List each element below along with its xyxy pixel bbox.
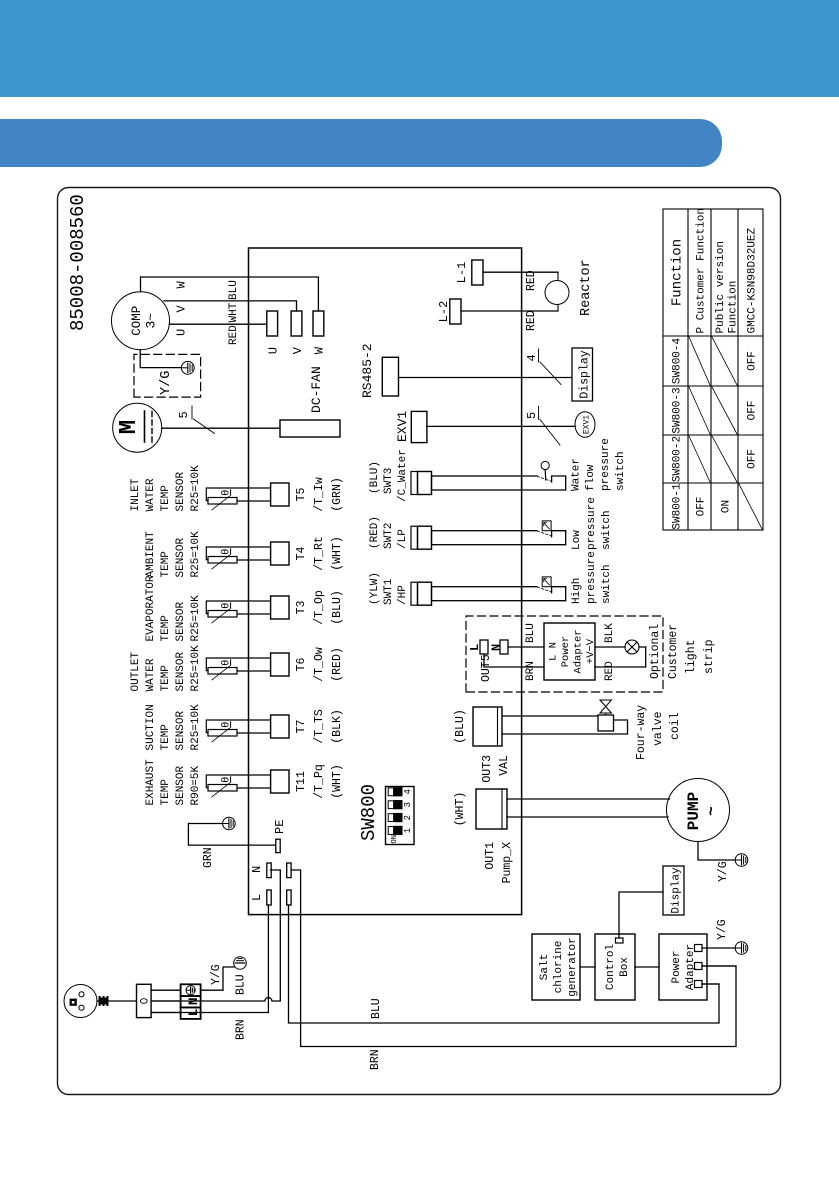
svg-text:COMP: COMP [130, 306, 144, 336]
diagram border frame [58, 188, 781, 1095]
svg-text:Function: Function [728, 281, 740, 334]
thermistor of T6 [208, 660, 237, 680]
DIP switch SW800 [386, 787, 415, 845]
svg-text:VAL: VAL [498, 755, 511, 776]
svg-text:R25=10K: R25=10K [190, 531, 202, 578]
wire RS485-2 to display [399, 377, 573, 379]
svg-text:GRN: GRN [202, 847, 215, 868]
svg-text:+V−V: +V−V [585, 638, 597, 664]
svg-text:P Customer Function: P Customer Function [696, 208, 708, 333]
DIP positions 1-4 [388, 787, 402, 835]
svg-text:switch: switch [615, 451, 627, 491]
wire COMP V [164, 301, 297, 311]
svg-text:/T_Iw: /T_Iw [313, 477, 326, 512]
wire RED return [595, 647, 646, 667]
switch contact SWT2 [522, 521, 566, 545]
svg-text:ON: ON [721, 500, 733, 513]
switch contact SWT1 [522, 577, 566, 601]
svg-text:BRN: BRN [369, 1049, 382, 1070]
svg-text:EXV1: EXV1 [395, 411, 410, 442]
thermistor of T11 [208, 777, 237, 797]
svg-text:BLU: BLU [228, 280, 240, 300]
svg-text:(RED): (RED) [331, 647, 344, 682]
svg-text:SENSOR: SENSOR [175, 471, 187, 511]
connector T11 [271, 770, 289, 793]
svg-text:Low: Low [571, 530, 583, 550]
board terminal N2 [287, 863, 291, 878]
adapter terminal 3 [695, 981, 703, 988]
switch contact SWT3 [522, 461, 566, 490]
connector T3 [271, 596, 289, 619]
svg-text:WHT: WHT [228, 302, 240, 322]
ground pump Y/G [735, 854, 748, 867]
wire L junction to block [151, 1012, 181, 1014]
svg-text:Display: Display [579, 350, 592, 398]
svg-text:V: V [291, 346, 305, 354]
svg-text:M: M [116, 420, 143, 434]
svg-text:OUT3: OUT3 [481, 755, 494, 783]
temp sensor group T6 [130, 645, 202, 692]
svg-text:T3: T3 [295, 601, 308, 615]
svg-text:/T_Rt: /T_Rt [313, 536, 326, 571]
connector SWT2 [411, 526, 522, 549]
EXV1 motor head [575, 412, 595, 438]
svg-text:(WHT): (WHT) [331, 536, 344, 571]
svg-text:SUCTION: SUCTION [145, 704, 157, 750]
temp sensor group T5 [130, 465, 202, 512]
wire adapter to ground [702, 947, 736, 949]
four-way valve coil [598, 715, 614, 731]
label Four-way valve coil [635, 705, 682, 760]
compressor COMP [112, 292, 170, 350]
svg-text:/HP: /HP [397, 585, 409, 605]
wire PE block to ground [201, 967, 234, 990]
svg-text:R25=10K: R25=10K [190, 465, 202, 512]
wire BLK to lamp [595, 646, 646, 648]
label High pressure switch [571, 551, 613, 604]
svg-text:Display: Display [671, 867, 683, 914]
svg-text:RED: RED [604, 661, 616, 681]
svg-text:Y/G: Y/G [159, 371, 174, 395]
svg-text:L-1: L-1 [455, 262, 469, 284]
svg-text:switch: switch [601, 510, 613, 550]
wire M to DC-FAN [162, 427, 280, 429]
svg-text:SENSOR: SENSOR [175, 651, 187, 691]
svg-text:θ: θ [221, 777, 233, 783]
svg-text:Reactor: Reactor [579, 259, 594, 316]
temp sensor group T4 [145, 531, 202, 578]
wire N plug to board with hop [151, 870, 280, 1001]
labels SWT2 [369, 516, 409, 549]
svg-text:generator: generator [567, 937, 579, 996]
svg-text:L N: L N [548, 642, 560, 661]
thermistor of T3 [208, 603, 237, 623]
temp sensor group T7 [145, 704, 202, 751]
svg-text:θ: θ [221, 722, 233, 728]
svg-text:Water: Water [571, 458, 583, 491]
svg-text:OUT5: OUT5 [480, 654, 493, 682]
svg-text:SWT1: SWT1 [383, 578, 395, 605]
fan motor M [113, 403, 162, 452]
svg-text:Power: Power [560, 636, 572, 668]
OUT5 dashed option box [466, 616, 663, 692]
label Water flow pressure switch [571, 438, 628, 491]
svg-text:SW800-4: SW800-4 [672, 338, 684, 385]
svg-text:(BLK): (BLK) [331, 709, 344, 744]
svg-text:EXHAUST: EXHAUST [145, 759, 157, 806]
svg-text:Salt: Salt [539, 954, 551, 980]
svg-text:BLU: BLU [235, 974, 248, 995]
wire L2 to BLU run [289, 905, 720, 1023]
svg-text:SENSOR: SENSOR [175, 537, 187, 577]
label Low pressure switch [571, 497, 613, 550]
svg-text:Customer: Customer [667, 624, 680, 679]
svg-text:SW800-2: SW800-2 [672, 436, 684, 482]
svg-text:Y/G: Y/G [716, 919, 729, 940]
svg-text:RS485-2: RS485-2 [360, 343, 375, 398]
board terminal L1 [267, 890, 271, 905]
svg-text:OFF: OFF [747, 401, 759, 421]
svg-text:RED: RED [525, 310, 538, 331]
svg-text:TEMP: TEMP [160, 665, 172, 692]
svg-text:WATER: WATER [145, 478, 157, 511]
svg-text:SW800: SW800 [358, 784, 380, 841]
wire L-2 to reactor [461, 310, 558, 312]
svg-text:TEMP: TEMP [160, 551, 172, 578]
connector SWT3 [411, 472, 522, 495]
board terminal PE [276, 839, 280, 852]
power plug P1 [64, 985, 97, 1018]
svg-text:WATER: WATER [145, 658, 157, 691]
svg-text:θ: θ [221, 603, 233, 609]
svg-text:(WHT): (WHT) [331, 764, 344, 799]
cord junction box [137, 984, 152, 1017]
terminal W [313, 311, 324, 336]
display unit (top) [572, 348, 593, 401]
svg-text:T4: T4 [295, 547, 308, 561]
labels SWT1 [369, 572, 409, 605]
control box [595, 934, 635, 1000]
svg-text:(YLW): (YLW) [369, 572, 381, 605]
Y/G dashed box [134, 354, 201, 397]
wires T6 to board [206, 658, 270, 671]
ground COMP Y/G [181, 361, 194, 374]
svg-text:OFF: OFF [696, 497, 708, 517]
svg-text:5: 5 [177, 411, 191, 418]
labels SWT3 [369, 449, 409, 502]
svg-text:TEMP: TEMP [160, 615, 172, 642]
wire N2 to BRN run [291, 870, 736, 1047]
cable gland [99, 996, 109, 1006]
svg-text:Adapter: Adapter [685, 944, 697, 990]
table diagonal slashes [689, 337, 762, 529]
svg-text:1: 1 [403, 828, 413, 833]
thermistor of T5 [208, 490, 237, 510]
svg-text:AMBIENT: AMBIENT [145, 531, 157, 578]
DIP function table [663, 209, 763, 530]
svg-text:W: W [313, 346, 327, 354]
control box terminal [616, 938, 624, 943]
wires T3 to board [206, 601, 270, 614]
svg-text:pressure: pressure [586, 497, 598, 550]
svg-text:V: V [175, 305, 189, 313]
wires OUT1 to pump [507, 798, 670, 800]
svg-text:/T_Op: /T_Op [313, 590, 326, 625]
svg-text:Y/G: Y/G [210, 964, 223, 985]
svg-text:TEMP: TEMP [160, 724, 172, 751]
table header SW800-1..4 / Function [672, 338, 684, 530]
svg-text:Public version: Public version [715, 241, 727, 333]
svg-text:INLET: INLET [130, 478, 142, 511]
svg-text:ON: ON [391, 835, 399, 843]
svg-text:TEMP: TEMP [160, 779, 172, 806]
svg-text:(WHT): (WHT) [454, 792, 467, 827]
svg-text:T6: T6 [295, 658, 308, 672]
terminal block N [181, 996, 201, 1007]
svg-text:pressure: pressure [586, 551, 598, 604]
svg-text:Box: Box [619, 957, 631, 977]
terminal U [267, 311, 278, 336]
svg-text:EXV1: EXV1 [583, 415, 592, 434]
wire pump to ground [698, 842, 736, 861]
wire display to control box [619, 892, 663, 938]
svg-text:GMCC-KSN98D32UEZ: GMCC-KSN98D32UEZ [747, 227, 759, 333]
svg-text:(BLU): (BLU) [369, 461, 381, 494]
svg-text:U: U [267, 347, 281, 354]
power adapter (main) [659, 934, 707, 1000]
svg-text:4: 4 [525, 354, 539, 361]
svg-text:BRN: BRN [525, 661, 537, 681]
svg-text:RED: RED [525, 270, 538, 291]
svg-text:OUT1: OUT1 [484, 842, 497, 870]
svg-text:switch: switch [601, 564, 613, 604]
svg-text:Pump_X: Pump_X [501, 842, 514, 884]
svg-text:(GRN): (GRN) [331, 477, 344, 512]
wire N junction to block [151, 1000, 181, 1002]
pump PUMP [667, 779, 730, 842]
svg-text:SENSOR: SENSOR [175, 765, 187, 805]
svg-text:L: L [250, 894, 264, 901]
svg-text:High: High [571, 578, 583, 604]
svg-text:/LP: /LP [397, 529, 409, 549]
svg-text:chlorine: chlorine [553, 941, 565, 994]
svg-text:85008-008560: 85008-008560 [67, 194, 89, 331]
svg-text:strip: strip [703, 639, 716, 674]
adapter terminal 2 [695, 963, 703, 970]
svg-text:N: N [250, 866, 264, 873]
wires T11 to board [206, 775, 270, 788]
wire PE junction to block [151, 989, 181, 991]
svg-text:BRN: BRN [235, 1019, 248, 1040]
terminal block L [181, 1007, 201, 1019]
svg-text:R90=5K: R90=5K [190, 765, 202, 805]
svg-text:Power: Power [671, 950, 683, 983]
svg-text:N: N [490, 644, 504, 651]
svg-text:W: W [175, 281, 189, 289]
svg-text:Y/G: Y/G [717, 861, 730, 882]
wire COMP to ground [140, 350, 181, 368]
connector T5 [271, 483, 289, 506]
svg-text:flow: flow [585, 464, 597, 491]
ground GRN [223, 817, 236, 830]
wire control to power adapter [635, 966, 659, 968]
svg-text:OUTLET: OUTLET [130, 651, 142, 691]
wire OUT3 return [502, 720, 628, 734]
terminal V [291, 311, 302, 336]
svg-text:3: 3 [403, 802, 413, 807]
valve symbol [600, 700, 611, 715]
svg-text:Optional: Optional [649, 624, 662, 679]
svg-text:Control: Control [605, 944, 617, 990]
svg-text:SWT2: SWT2 [383, 523, 395, 549]
label Optional Customer light strip [649, 624, 716, 679]
svg-text:R25=10K: R25=10K [190, 645, 202, 692]
svg-text:/C_Water: /C_Water [397, 449, 409, 502]
svg-text:(BLU): (BLU) [454, 709, 467, 744]
svg-text:(RED): (RED) [369, 516, 381, 549]
svg-text:light: light [685, 639, 698, 674]
svg-text:Adapter: Adapter [573, 629, 585, 673]
wire COMP W [141, 277, 319, 311]
wire L-1 to reactor [483, 271, 558, 273]
thermistor of T7 [208, 722, 237, 742]
svg-text:Function: Function [670, 239, 686, 306]
svg-text:SENSOR: SENSOR [175, 710, 187, 750]
wire GRN ground loop [188, 824, 275, 846]
ground adapter Y/G [735, 942, 748, 955]
terminal block PE [181, 984, 201, 996]
svg-text:RED: RED [228, 325, 240, 345]
wire plug to junction [97, 1000, 137, 1002]
svg-text:U: U [175, 329, 189, 336]
wires T4 to board [206, 547, 270, 560]
wire COMP U [169, 323, 266, 325]
svg-text:/T_Ow: /T_Ow [313, 647, 326, 682]
svg-text:/T_Pq: /T_Pq [313, 764, 326, 799]
svg-text:BLK: BLK [604, 623, 616, 643]
svg-text:4: 4 [403, 789, 413, 794]
main board SW800 outline [249, 248, 522, 915]
svg-text:(BLU): (BLU) [331, 590, 344, 625]
wire adapter t2 to BRN run [702, 965, 736, 967]
second blue band [0, 119, 722, 167]
connector DC-FAN [280, 420, 340, 437]
svg-text:3~: 3~ [144, 313, 159, 329]
svg-text:PE: PE [273, 820, 287, 834]
svg-text:BLU: BLU [370, 998, 383, 1019]
svg-text:OFF: OFF [747, 449, 759, 469]
wires T7 to board [206, 720, 270, 733]
display unit (bottom) [663, 866, 684, 915]
wire EXV1 [427, 425, 576, 427]
connector SWT1 [411, 582, 522, 605]
svg-text:SW800-3: SW800-3 [672, 387, 684, 433]
svg-text:T5: T5 [295, 488, 308, 502]
svg-text:~: ~ [703, 806, 721, 816]
wire L plug to board [151, 905, 268, 1013]
connector T4 [271, 542, 289, 565]
svg-text:EVAPORATOR: EVAPORATOR [145, 575, 157, 641]
svg-text:TEMP: TEMP [160, 485, 172, 512]
thermistor of T4 [208, 549, 237, 569]
svg-text:5: 5 [525, 412, 539, 419]
svg-text:SWT3: SWT3 [383, 468, 395, 494]
temp sensor group T3 [145, 575, 202, 641]
wire OUT5 N to adapter [508, 646, 544, 648]
wire OUT3 to valve coil [502, 715, 598, 717]
svg-text:OFF: OFF [747, 351, 759, 371]
svg-text:DC-FAN: DC-FAN [309, 366, 324, 413]
svg-text:BLU: BLU [525, 623, 537, 643]
connector T6 [271, 653, 289, 676]
svg-text:SENSOR: SENSOR [175, 601, 187, 641]
wires T5 to board [206, 488, 270, 501]
svg-text:R25=10K: R25=10K [190, 595, 202, 642]
pin numbers 1 2 3 4 [403, 789, 413, 833]
svg-text:Four-way: Four-way [635, 705, 648, 760]
top blue band [0, 0, 839, 97]
svg-text:T7: T7 [295, 720, 308, 734]
wire adapter t3 to BLU run [702, 983, 719, 985]
wire OUT5 L to adapter [484, 654, 544, 667]
adapter terminal 1 [695, 945, 703, 952]
svg-text:PUMP: PUMP [685, 792, 703, 830]
svg-text:θ: θ [221, 549, 233, 555]
salt chlorine generator [532, 934, 580, 1000]
lamp of light strip [625, 640, 639, 654]
wire salt to control [580, 966, 595, 968]
power adapter (light strip) [544, 623, 595, 680]
svg-text:SW800-1: SW800-1 [672, 483, 684, 530]
svg-text:/T_TS: /T_TS [313, 709, 326, 744]
reactor coil [557, 272, 559, 311]
svg-text:valve: valve [652, 711, 665, 746]
ground Y/G at power inlet [234, 957, 247, 970]
svg-text:R25=10K: R25=10K [190, 704, 202, 751]
svg-text:L-2: L-2 [437, 301, 451, 323]
svg-text:2: 2 [403, 815, 413, 820]
connector T7 [271, 715, 289, 738]
temp sensor group T11 [145, 759, 202, 806]
svg-text:T11: T11 [295, 771, 308, 792]
svg-text:θ: θ [221, 490, 233, 496]
svg-text:coil: coil [669, 712, 682, 740]
board terminal L2 [287, 890, 291, 905]
svg-text:θ: θ [221, 660, 233, 666]
board terminal N1 [267, 863, 271, 878]
svg-text:pressure: pressure [600, 438, 612, 491]
